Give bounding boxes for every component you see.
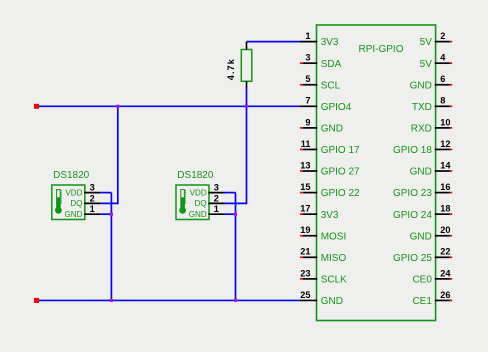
wire U1 VDD-GND vertical tie [110, 193, 112, 302]
svg-text:1: 1 [305, 31, 310, 41]
svg-text:DS1820: DS1820 [177, 170, 214, 181]
svg-text:5V: 5V [420, 59, 433, 70]
svg-text:4: 4 [440, 53, 446, 63]
svg-text:22: 22 [440, 247, 450, 257]
wire U1 GND horizontal [100, 213, 112, 215]
svg-text:RPI-GPIO: RPI-GPIO [358, 44, 403, 55]
junction U1 tie to GND rail [110, 299, 113, 302]
pin 20 (GND) right stub [435, 235, 452, 237]
pin 18 (GPIO 24) right stub [435, 213, 452, 215]
DS1820 #1 thermometer icon [55, 190, 62, 214]
svg-text:6: 6 [440, 74, 445, 84]
svg-text:15: 15 [300, 182, 310, 192]
resistor 4.7k body [241, 42, 252, 88]
pin 11 (GPIO 17) left stub [300, 148, 317, 150]
pin 25 (GND) left stub [300, 299, 317, 301]
pin 2 (5V) right stub [435, 41, 452, 43]
svg-text:8: 8 [440, 96, 445, 106]
svg-text:9: 9 [305, 117, 310, 127]
DS1820 #2 pin 2 (DQ) stub [208, 202, 224, 204]
svg-text:CE1: CE1 [412, 296, 432, 307]
svg-text:16: 16 [440, 182, 450, 192]
pin 4 (5V) right stub [435, 62, 452, 64]
pin 16 (GPIO 23) right stub [435, 192, 452, 194]
svg-text:DS1820: DS1820 [53, 170, 90, 181]
svg-text:GND: GND [321, 296, 343, 307]
svg-text:2: 2 [90, 193, 95, 203]
wire U2 DQ horizontal [225, 202, 247, 204]
wire net GPIO4/DQ horizontal rail [39, 105, 301, 107]
svg-text:GPIO 23: GPIO 23 [393, 188, 432, 199]
svg-text:VDD: VDD [65, 188, 82, 197]
pin 10 (RXD) right stub [435, 127, 452, 129]
svg-text:12: 12 [440, 139, 450, 149]
pin 3 (SDA) left stub [300, 62, 317, 64]
pin 21 (MISO) left stub [300, 256, 317, 258]
svg-text:19: 19 [300, 225, 310, 235]
svg-text:GND: GND [321, 123, 343, 134]
DS1820 #2 thermometer icon [179, 190, 186, 214]
pin 19 (MOSI) left stub [300, 235, 317, 237]
DS1820 #1 pin 3 (VDD) stub [84, 192, 100, 194]
svg-text:SDA: SDA [321, 59, 342, 70]
pin 8 (TXD) right stub [435, 105, 452, 107]
svg-text:3: 3 [305, 53, 310, 63]
wire resistor top to 3V3 pin 1 [247, 41, 301, 43]
svg-text:VDD: VDD [190, 188, 207, 197]
pin 1 (3V3) left stub [300, 41, 317, 43]
svg-text:DQ: DQ [70, 199, 82, 208]
svg-text:GPIO4: GPIO4 [321, 102, 352, 113]
svg-text:MOSI: MOSI [321, 231, 347, 242]
svg-text:3: 3 [214, 183, 219, 193]
svg-text:GPIO 22: GPIO 22 [321, 188, 360, 199]
pin 7 (GPIO4) left stub [300, 105, 317, 107]
svg-text:24: 24 [440, 268, 451, 278]
pin 14 (GND) right stub [435, 170, 452, 172]
svg-text:5V: 5V [420, 37, 433, 48]
junction DQ2-GPIO4 [245, 105, 248, 108]
svg-text:20: 20 [440, 225, 450, 235]
DS1820 #1 box outline [52, 185, 85, 220]
svg-text:17: 17 [300, 204, 310, 214]
junction DQ1-GPIO4 [116, 105, 119, 108]
pin 22 (GPIO 25) right stub [435, 256, 452, 258]
svg-text:GND: GND [410, 231, 432, 242]
wire U2 DQ / resistor vertical to GPIO4 rail [246, 87, 248, 204]
svg-text:1: 1 [90, 204, 95, 214]
DS1820 #2 pin 3 (VDD) stub [208, 192, 224, 194]
junction U2 GND pin [234, 213, 237, 216]
pin 13 (GPIO 27) left stub [300, 170, 317, 172]
svg-text:3V3: 3V3 [321, 37, 339, 48]
svg-text:GND: GND [65, 210, 83, 219]
svg-text:2: 2 [440, 31, 445, 41]
svg-text:SCLK: SCLK [321, 274, 347, 285]
svg-text:SCL: SCL [321, 80, 341, 91]
svg-text:13: 13 [300, 160, 310, 170]
svg-text:25: 25 [300, 290, 310, 300]
svg-text:GND: GND [189, 210, 207, 219]
pin 24 (CE0) right stub [435, 278, 452, 280]
pin 12 (GPIO 18) right stub [435, 148, 452, 150]
svg-text:CE0: CE0 [412, 274, 432, 285]
svg-text:3V3: 3V3 [321, 210, 339, 221]
svg-text:GND: GND [410, 80, 432, 91]
pin 5 (SCL) left stub [300, 84, 317, 86]
DS1820 #2 pin 1 (GND) stub [208, 213, 224, 215]
svg-text:GND: GND [410, 167, 432, 178]
pin 23 (SCLK) left stub [300, 278, 317, 280]
svg-text:GPIO 18: GPIO 18 [393, 145, 432, 156]
net end marker GND rail [34, 298, 39, 303]
svg-text:GPIO 27: GPIO 27 [321, 167, 360, 178]
svg-text:GPIO 25: GPIO 25 [393, 253, 432, 264]
junction U1 GND pin [110, 213, 113, 216]
wire U1 DQ vertical to GPIO4 rail [117, 106, 119, 204]
junction U2 tie to GND rail [234, 299, 237, 302]
svg-text:26: 26 [440, 290, 450, 300]
svg-text:3: 3 [90, 183, 95, 193]
pin 17 (3V3) left stub [300, 213, 317, 215]
svg-text:5: 5 [305, 74, 310, 84]
pin 9 (GND) left stub [300, 127, 317, 129]
svg-text:MISO: MISO [321, 253, 347, 264]
pin 15 (GPIO 22) left stub [300, 192, 317, 194]
svg-text:TXD: TXD [412, 102, 432, 113]
wire U2 VDD stub to tie-down [225, 192, 236, 194]
svg-text:7: 7 [305, 96, 310, 106]
wire U1 VDD stub to tie-down [100, 192, 111, 194]
svg-text:21: 21 [300, 247, 310, 257]
svg-text:4.7k: 4.7k [226, 58, 236, 80]
pin 26 (CE1) right stub [435, 299, 452, 301]
svg-text:1: 1 [214, 204, 219, 214]
svg-text:11: 11 [301, 139, 311, 149]
wire U1 DQ horizontal [100, 202, 118, 204]
pin 6 (GND) right stub [435, 84, 452, 86]
svg-text:14: 14 [440, 160, 451, 170]
IC RPI-GPIO box outline [317, 25, 436, 321]
wire U2 GND horizontal [225, 213, 237, 215]
wire net GND horizontal rail [39, 299, 301, 301]
svg-text:GPIO 17: GPIO 17 [321, 145, 360, 156]
svg-text:10: 10 [440, 117, 450, 127]
DS1820 #1 pin 2 (DQ) stub [84, 202, 100, 204]
svg-text:18: 18 [440, 204, 450, 214]
svg-text:2: 2 [214, 193, 219, 203]
svg-text:23: 23 [300, 268, 310, 278]
wire U2 VDD-GND vertical tie [235, 193, 237, 302]
svg-text:DQ: DQ [195, 199, 207, 208]
svg-text:GPIO 24: GPIO 24 [393, 210, 432, 221]
DS1820 #2 box outline [176, 185, 209, 220]
svg-text:RXD: RXD [411, 123, 432, 134]
DS1820 #1 pin 1 (GND) stub [84, 213, 100, 215]
net end marker GPIO4 rail [34, 104, 39, 109]
